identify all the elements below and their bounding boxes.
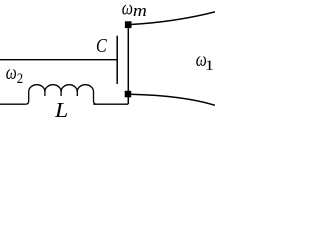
inductor L bbox=[26, 85, 97, 105]
capacitor C left plate bbox=[116, 36, 118, 84]
svg-text:ωm: ωm bbox=[122, 0, 147, 20]
svg-text:L: L bbox=[54, 98, 68, 120]
inductor junction tails bbox=[45, 91, 77, 97]
wire bottom rail left bbox=[0, 103, 26, 105]
svg-text:C: C bbox=[96, 35, 107, 57]
wire top horn curve bbox=[131, 12, 216, 25]
svg-text:ω1: ω1 bbox=[196, 49, 215, 74]
node top (omega_m) bbox=[125, 21, 132, 28]
node bottom bbox=[125, 91, 132, 98]
wire vertical between nodes bbox=[127, 24, 129, 104]
wire bottom horn curve bbox=[131, 94, 216, 105]
wire top rail to capacitor bbox=[0, 59, 117, 61]
wire bottom rail right bbox=[93, 103, 128, 105]
svg-text:ω2: ω2 bbox=[6, 62, 23, 87]
